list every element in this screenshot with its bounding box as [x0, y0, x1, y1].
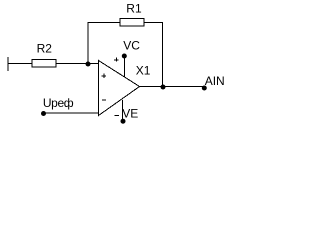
- wire feedback vertical left: [87, 22, 89, 64]
- input terminal bar: [7, 57, 9, 71]
- node VE: [121, 119, 126, 124]
- VE supply pin wire: [121, 100, 123, 121]
- svg-text:X1: X1: [136, 63, 151, 77]
- wire terminal to R2: [8, 63, 32, 65]
- op-amp inverting input minus sign: [102, 99, 106, 101]
- wire Uref to op-amp inverting input: [44, 112, 99, 114]
- node VC: [122, 54, 127, 59]
- wire top feedback horizontal left: [88, 22, 121, 24]
- resistor R2: [32, 60, 56, 68]
- svg-text:R1: R1: [126, 1, 142, 15]
- resistor R1: [120, 19, 144, 27]
- node output junction: [161, 85, 166, 90]
- op-amp positive supply plus sign: [114, 58, 119, 62]
- node AIN terminal: [202, 86, 207, 91]
- VC supply pin wire: [123, 56, 125, 77]
- node junction R2/feedback: [86, 62, 91, 67]
- svg-text:R2: R2: [37, 42, 53, 56]
- svg-text:Uреф: Uреф: [43, 96, 74, 110]
- svg-text:AIN: AIN: [205, 74, 225, 88]
- op-amp negative supply minus sign: [115, 115, 119, 117]
- svg-text:VC: VC: [123, 39, 140, 53]
- op-amp non-inverting input plus sign: [102, 74, 106, 78]
- node Uref terminal: [41, 111, 46, 116]
- wire feedback vertical right: [162, 22, 164, 87]
- svg-text:VE: VE: [122, 106, 138, 120]
- wire top feedback horizontal right: [144, 22, 163, 24]
- wire R2 to op-amp: [56, 63, 99, 65]
- op-amp U1 triangle: [99, 61, 140, 116]
- wire op-amp output to AIN: [140, 86, 205, 88]
